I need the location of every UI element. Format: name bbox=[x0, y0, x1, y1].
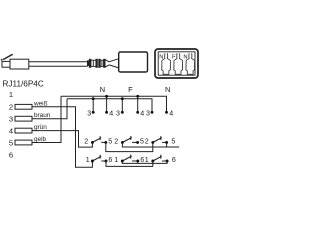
wire gruen: pin4 to u1 pin2 bbox=[32, 131, 92, 148]
TAE socket housing (inner) bbox=[158, 52, 195, 75]
strain relief cone bbox=[105, 59, 118, 68]
switch contact socket1 2-5 bbox=[92, 136, 105, 142]
riser socket2 pin4 bbox=[137, 96, 139, 111]
switch contact socket2 2-5 bbox=[122, 136, 137, 142]
svg-text:4: 4 bbox=[109, 109, 113, 117]
riser socket2 pin3 bbox=[121, 99, 123, 112]
bus terminal dots (socket pins 3/4) bbox=[92, 111, 168, 114]
svg-text:6: 6 bbox=[172, 156, 176, 164]
tap socket3 pin5 to M2 bbox=[166, 142, 168, 147]
labels 1/6 row bbox=[86, 156, 176, 164]
svg-text:gelb: gelb bbox=[34, 136, 47, 143]
svg-text:3: 3 bbox=[9, 115, 13, 124]
svg-text:grün: grün bbox=[34, 124, 47, 131]
svg-text:4: 4 bbox=[9, 126, 13, 135]
svg-text:3: 3 bbox=[87, 109, 91, 117]
svg-text:4: 4 bbox=[169, 109, 173, 117]
contact rect pin3 bbox=[15, 116, 32, 121]
svg-text:weiß: weiß bbox=[33, 100, 48, 107]
svg-text:6: 6 bbox=[140, 156, 144, 164]
svg-text:F: F bbox=[128, 85, 133, 94]
svg-text:6: 6 bbox=[108, 156, 112, 164]
wire cable pair (plug to coupler) bbox=[29, 62, 88, 67]
svg-text:2: 2 bbox=[9, 103, 13, 112]
loop M2: socket2 pin2 feed line bbox=[122, 142, 179, 147]
TAE slot F (middle) bbox=[174, 53, 183, 74]
contact rect pin4 bbox=[15, 128, 32, 133]
switch contact socket3 2-5 bbox=[153, 136, 167, 142]
wire weiss: pin2 to u1 pin1 bbox=[32, 107, 92, 168]
junction dots on buses bbox=[92, 95, 139, 100]
TAE slot N (right) bbox=[186, 53, 195, 74]
svg-text:4: 4 bbox=[140, 109, 144, 117]
3/4 pin labels bbox=[87, 109, 173, 117]
cable end cap bbox=[88, 61, 89, 66]
TAE socket housing (outer) bbox=[155, 49, 198, 78]
lower bus (pin3 line) bbox=[67, 99, 152, 112]
labels 2/5 row bbox=[84, 137, 175, 145]
svg-text:N: N bbox=[159, 55, 163, 61]
svg-text:1: 1 bbox=[114, 156, 118, 164]
svg-text:1: 1 bbox=[9, 90, 13, 99]
loop L2: socket2 pin1 to socket3 pin6 bbox=[122, 161, 167, 163]
wire braun: pin3 to lower bus bbox=[32, 99, 67, 119]
svg-text:F: F bbox=[172, 55, 176, 61]
upper bus (pin4 line) bbox=[61, 96, 167, 111]
N F N column labels bbox=[100, 85, 171, 94]
svg-text:5: 5 bbox=[108, 137, 112, 145]
loop M1: socket1 pin5 to socket3 pin2 bbox=[106, 142, 153, 151]
svg-text:braun: braun bbox=[34, 112, 51, 119]
svg-text:6: 6 bbox=[9, 151, 13, 160]
svg-text:3: 3 bbox=[146, 109, 150, 117]
inline coupler K1 bbox=[89, 59, 97, 67]
TAE slot letters bbox=[159, 55, 187, 61]
contact rect pin5 bbox=[15, 140, 32, 145]
svg-text:N: N bbox=[165, 85, 170, 94]
svg-text:1: 1 bbox=[145, 156, 149, 164]
RJ11 plug P1 (cable drawing, left) bbox=[1, 54, 29, 69]
switch contact socket3 1-6 bbox=[153, 155, 167, 161]
svg-text:2: 2 bbox=[84, 137, 88, 145]
riser socket1 pin3 bbox=[92, 99, 94, 112]
svg-text:RJ11/6P4C: RJ11/6P4C bbox=[3, 80, 44, 89]
svg-text:1: 1 bbox=[86, 156, 90, 164]
pin numbers 1-6 bbox=[9, 90, 13, 159]
svg-text:2: 2 bbox=[114, 137, 118, 145]
svg-text:2: 2 bbox=[145, 137, 149, 145]
switch contact socket1 1-6 bbox=[92, 155, 106, 161]
svg-text:5: 5 bbox=[140, 137, 144, 145]
svg-text:3: 3 bbox=[116, 109, 120, 117]
tap socket2 pin6 to L2 bbox=[137, 161, 139, 163]
svg-text:5: 5 bbox=[9, 138, 13, 147]
inline coupler K2 bbox=[99, 59, 105, 67]
wire gelb: pin5 to upper bus bbox=[32, 96, 61, 142]
svg-text:N: N bbox=[183, 55, 187, 61]
svg-text:N: N bbox=[100, 85, 105, 94]
loop L1: socket1 pin6 to socket3 pin1 bbox=[106, 161, 153, 166]
switch contact socket2 1-6 bbox=[122, 155, 138, 161]
contact rect pin2 bbox=[15, 104, 32, 109]
svg-text:5: 5 bbox=[171, 137, 175, 145]
wire color labels bbox=[33, 100, 51, 143]
TAE slot N (left) bbox=[162, 53, 171, 74]
riser socket1 pin4 bbox=[106, 96, 108, 111]
adapter box bbox=[119, 52, 148, 72]
